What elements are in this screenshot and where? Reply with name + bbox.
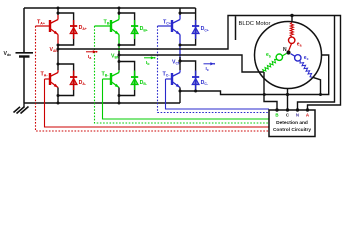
node loop-bottom junction B- <box>118 94 121 97</box>
wire motor neutral drop to pin C <box>287 88 289 110</box>
wire diode DC+ loop <box>180 8 196 45</box>
pin N <box>296 108 299 111</box>
current arrow Ic <box>204 62 216 65</box>
wire phase node down to TC- collector <box>179 61 181 70</box>
node loop-bottom junction C+ <box>179 44 182 47</box>
wire phase B output <box>119 55 264 72</box>
node phase tap VBN <box>118 54 121 57</box>
node loop-bottom junction B+ <box>118 44 121 47</box>
node phase C crossing blob at B drop <box>263 93 266 96</box>
wire leg B collector drop from rail <box>118 8 120 15</box>
wire diode DC- loop <box>180 61 196 91</box>
wire emitter of TB+ down to phase node VBN <box>118 35 120 56</box>
diode DA+ <box>70 20 77 39</box>
wire phase B motor drop <box>264 72 277 110</box>
wire phase node down to TA- collector <box>57 49 59 70</box>
wire bottom DC rail <box>24 102 180 104</box>
wire diode DB- loop <box>119 62 135 96</box>
svg-text:N: N <box>296 113 299 118</box>
winding phase a (zigzag) <box>290 23 293 37</box>
node loop-top junction A+ <box>57 12 60 15</box>
svg-text:Control Circuitry: Control Circuitry <box>273 127 311 133</box>
pin B <box>275 108 278 111</box>
wire diode DA+ loop <box>58 13 74 45</box>
transistor TB+ <box>95 15 120 35</box>
node phase A tap on box top <box>290 14 293 17</box>
back-emf source ea <box>289 37 295 43</box>
transistor TA+ <box>36 15 59 35</box>
pin A <box>306 108 309 111</box>
node phase tap VCN <box>179 60 182 63</box>
wire gate drive TC- (solid blue) <box>166 79 270 109</box>
node loop-bottom junction A- <box>57 94 60 97</box>
BLDC motor enclosure box (partial outline) <box>235 16 237 40</box>
wire N to ec <box>291 54 295 57</box>
wire gate drive TC+ (dotted blue) <box>158 26 270 113</box>
wire phase A stub into motor <box>291 16 293 23</box>
svg-text:B: B <box>275 113 278 118</box>
svg-text:N: N <box>283 47 287 53</box>
back-emf source ec <box>295 55 301 61</box>
wire emitter of TB- to bottom rail <box>118 88 120 104</box>
wire emitter of TC+ down to phase node VCN <box>179 35 181 62</box>
wire emitter of TA- to bottom rail <box>57 88 59 104</box>
node loop-top junction B- <box>118 60 121 63</box>
current arrow Ia <box>86 50 98 53</box>
wire battery negative lead <box>23 57 25 104</box>
wire diode DA- loop <box>58 64 74 96</box>
wire gate drive TA- (solid red) <box>45 79 270 127</box>
node rail junction leg A <box>57 7 60 10</box>
wire leg A collector drop from rail <box>57 8 59 15</box>
battery Vdc <box>16 53 34 57</box>
node bottom rail junction leg A <box>57 102 60 105</box>
diode DB- <box>131 71 138 91</box>
wire top DC rail <box>24 7 196 9</box>
wire battery positive lead <box>23 8 25 52</box>
wire N to eb <box>282 53 286 56</box>
back-emf source eb <box>276 54 282 60</box>
node loop-top junction A- <box>57 63 60 66</box>
transistor TC+ <box>158 15 181 35</box>
wire phase C output <box>196 55 329 95</box>
current arrow Ib <box>144 56 156 59</box>
node link junction on phase C wire <box>319 93 322 96</box>
transistor TB- <box>103 70 120 88</box>
wire gate drive TB+ (dotted green) <box>95 26 270 123</box>
transistor TC- <box>166 70 181 88</box>
wire ea to N <box>289 44 292 51</box>
wire phase c winding link down to phase C wire <box>312 77 320 94</box>
svg-text:BLDC Motor: BLDC Motor <box>239 21 271 27</box>
diode DA- <box>70 71 77 91</box>
wire pin N riser to top edge <box>298 16 335 110</box>
winding phase c (zigzag) <box>300 61 312 77</box>
node neutral N <box>286 50 290 54</box>
node loop-bottom junction A+ <box>57 44 60 47</box>
motor stator circle <box>255 22 322 89</box>
node phase tap VAN <box>57 48 60 51</box>
svg-text:Detection and: Detection and <box>276 120 308 126</box>
node loop-top junction C- <box>179 60 182 63</box>
node wire crossing box bottom (C) <box>286 93 289 96</box>
pin C <box>286 108 289 111</box>
ground <box>14 103 29 114</box>
wire phase A output <box>58 16 341 111</box>
diode DC+ <box>192 20 199 39</box>
node phase C junction at loop corner <box>194 90 197 93</box>
wire emitter of TA+ down to phase node VAN <box>57 35 59 50</box>
node rail junction leg B <box>118 7 121 10</box>
node loop-top junction C+ <box>179 12 182 15</box>
wire phase node down to TB- collector <box>118 55 120 70</box>
detection and control circuitry box <box>269 110 315 137</box>
node loop-bottom junction C- <box>179 90 182 93</box>
wire gate drive TA+ (dotted red) <box>36 26 270 131</box>
diode DB+ <box>131 20 138 39</box>
wire gate drive TB- (solid green) <box>103 79 270 119</box>
node bottom rail junction leg B <box>118 102 121 105</box>
wire diode DB+ loop <box>119 13 135 45</box>
transistor TA- <box>45 70 59 88</box>
node loop-top junction B+ <box>118 12 121 15</box>
diode DC- <box>192 71 199 91</box>
wire leg C collector drop from rail <box>179 8 181 15</box>
winding phase b (zigzag) <box>263 59 277 72</box>
wire emitter of TC- to bottom rail <box>179 88 181 104</box>
